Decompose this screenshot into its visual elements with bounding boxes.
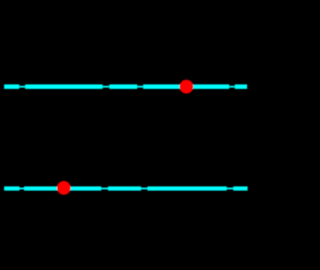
- track 1 intron bridge 3: [137, 86, 143, 88]
- track 2 intron bridge 3: [141, 188, 147, 190]
- track 1 variant marker dot: [180, 80, 194, 94]
- track 1 intron bridge 1: [19, 86, 25, 88]
- track 2 intron bridge 2: [101, 188, 108, 190]
- track 1 exon segment C: [109, 84, 137, 89]
- track 2 exon segment E: [233, 186, 247, 190]
- track 1 exon segment A: [4, 84, 19, 89]
- track 2 exon segment A: [4, 186, 19, 190]
- track 1 exon segment E: [235, 84, 247, 89]
- track 1 exon segment D: [143, 84, 229, 89]
- track 2 intron bridge 1: [20, 188, 25, 190]
- track 2 exon segment C: [108, 186, 141, 190]
- track 2 variant marker dot: [57, 181, 71, 195]
- track 1 intron bridge 2: [103, 86, 110, 88]
- track 1 intron bridge 4: [229, 86, 235, 88]
- track 1 exon segment B: [25, 84, 103, 89]
- track 2 exon segment B: [24, 186, 101, 190]
- track 2 intron bridge 4: [227, 188, 233, 190]
- track 2 exon segment D: [147, 186, 226, 190]
